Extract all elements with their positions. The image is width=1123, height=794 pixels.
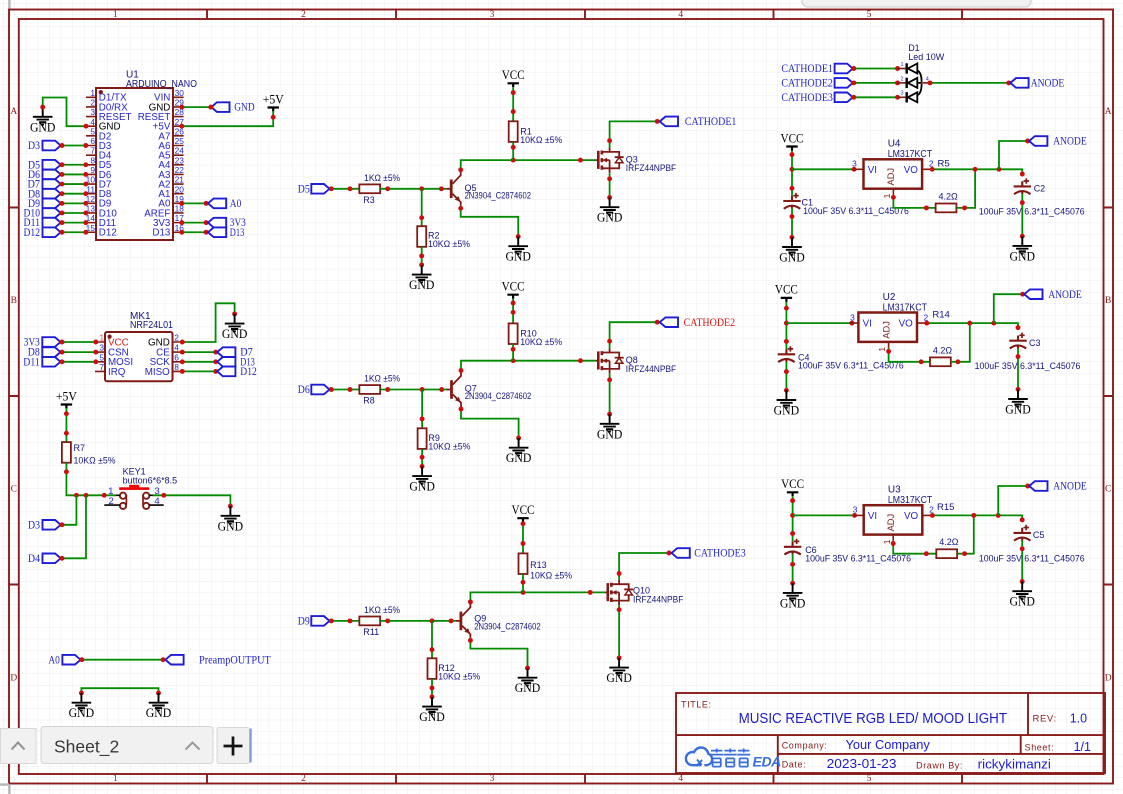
wire ADJ to resistor	[889, 348, 930, 362]
svg-text:Your Company: Your Company	[846, 738, 931, 752]
ground GND at Q8	[597, 414, 623, 441]
svg-text:4: 4	[154, 496, 160, 507]
svg-text:C: C	[1105, 484, 1111, 494]
wire emitter Q9 to ground	[470, 638, 527, 668]
wire D5 to R3	[330, 188, 359, 190]
svg-text:D13: D13	[230, 227, 245, 239]
svg-text:9: 9	[90, 165, 95, 175]
svg-text:7: 7	[90, 146, 95, 156]
svg-text:VI: VI	[868, 511, 877, 522]
port D5	[28, 159, 61, 171]
svg-text:D3: D3	[28, 140, 40, 152]
wire CATHODE3 to D1	[854, 96, 898, 98]
wire VCC to R13	[522, 522, 524, 553]
wire resistor to VO rail	[951, 323, 970, 362]
port D9	[28, 198, 61, 210]
power VCC (U4)	[781, 131, 804, 150]
wire to ANODE (U4)	[999, 141, 1028, 169]
wire VCC rail to U3 VI	[792, 496, 794, 541]
svg-text:C: C	[11, 484, 17, 494]
wire R1 to gate rail	[512, 142, 514, 160]
svg-text:VCC: VCC	[502, 68, 525, 82]
power VCC (R10)	[502, 280, 525, 299]
ground GND at C2	[1010, 236, 1036, 263]
wire MK1 to D12 flag	[182, 370, 215, 372]
svg-text:4.2Ω: 4.2Ω	[939, 537, 959, 547]
wire source Q8 to ground	[609, 374, 611, 414]
wire U1 to 3V3 flag	[182, 222, 206, 224]
svg-text:3: 3	[850, 312, 855, 322]
svg-text:A0: A0	[230, 198, 242, 210]
capacitor C2 100uF output	[979, 178, 1085, 216]
port ANODE (U4)	[1029, 136, 1087, 148]
svg-text:1: 1	[99, 333, 104, 343]
wire D3 to node	[62, 495, 77, 525]
wire D3 to U1 pin6	[62, 145, 87, 147]
resistor R2 10K	[417, 226, 470, 249]
wire D8 to MK1	[61, 351, 96, 353]
wire U1 to D13 flag	[182, 231, 206, 233]
svg-text:GND: GND	[780, 596, 806, 610]
wire R11 to base of Q9	[380, 620, 456, 622]
wire node to R2	[421, 189, 423, 226]
port ANODE (LED)	[1010, 78, 1064, 90]
svg-text:8: 8	[90, 155, 95, 165]
wire collector Q7 to gate rail	[461, 361, 595, 373]
power VCC (R13)	[512, 503, 535, 522]
wire VO rail	[932, 515, 1022, 520]
svg-text:10KΩ ±5%: 10KΩ ±5%	[520, 135, 562, 145]
wire 3V3 to MK1	[61, 341, 96, 343]
wire R3 to base of Q5	[380, 188, 446, 190]
svg-text:3: 3	[853, 505, 858, 515]
ground GND at KEY1	[218, 506, 244, 533]
port D10	[24, 208, 61, 220]
ground GND at U1	[30, 105, 89, 135]
svg-text:IRFZ44NPBF: IRFZ44NPBF	[633, 594, 684, 604]
resistor R11 1K	[359, 605, 400, 637]
port PreampOUTPUT	[165, 654, 270, 666]
IC MK1 NRF24L01	[95, 311, 183, 381]
svg-text:D6: D6	[298, 384, 310, 396]
svg-text:D9: D9	[298, 616, 310, 628]
svg-text:GND: GND	[597, 427, 623, 441]
svg-text:100uF 35V 6.3*11_C45076: 100uF 35V 6.3*11_C45076	[979, 206, 1085, 216]
port GND (U1 pin29)	[179, 102, 254, 114]
regulator U2 LM317KCT	[849, 292, 950, 352]
svg-text:IRQ: IRQ	[108, 367, 126, 378]
svg-text:rickykimanzi: rickykimanzi	[978, 757, 1051, 771]
svg-text:GND: GND	[234, 102, 254, 114]
wire R2 to ground	[421, 247, 423, 265]
port CATHODE1 (driver)	[660, 117, 678, 127]
port ANODE (U2)	[1024, 289, 1081, 301]
svg-text:PreampOUTPUT: PreampOUTPUT	[199, 654, 271, 666]
svg-text:GND: GND	[779, 251, 805, 265]
svg-text:C5: C5	[1033, 530, 1045, 540]
svg-text:1KΩ ±5%: 1KΩ ±5%	[364, 605, 400, 615]
svg-text:2: 2	[901, 76, 904, 82]
svg-text:100uF 35V 6.3*11_C45076: 100uF 35V 6.3*11_C45076	[979, 554, 1085, 564]
svg-text:U3: U3	[888, 485, 901, 496]
port D13 (MK1)	[217, 356, 255, 368]
svg-text:ARDUINO_NANO: ARDUINO_NANO	[126, 79, 197, 90]
svg-text:4.2Ω: 4.2Ω	[933, 345, 953, 355]
svg-text:VO: VO	[899, 319, 914, 330]
svg-text:D12: D12	[99, 228, 117, 239]
wire C6 to ground	[792, 554, 794, 583]
port A0 (preamp)	[48, 654, 80, 666]
svg-text:4: 4	[678, 774, 683, 784]
svg-text:GND: GND	[597, 211, 623, 225]
wire KEY1 pin3 to GND	[153, 495, 231, 506]
svg-text:2: 2	[90, 98, 95, 108]
wire drain Q3 to CATHODE1	[610, 121, 658, 147]
svg-text:3: 3	[901, 91, 904, 97]
svg-text:6: 6	[90, 136, 95, 146]
wire +5V to U1 pin27	[182, 111, 273, 126]
wire R10 to gate rail	[512, 344, 514, 361]
ground GND below R2	[409, 265, 435, 292]
wire VI input	[792, 168, 854, 170]
wire A0 to PreampOUTPUT	[82, 659, 166, 661]
svg-text:VI: VI	[868, 165, 877, 176]
transistor Q9 2N3904	[456, 604, 541, 638]
svg-text:VI: VI	[863, 319, 872, 330]
wire drain Q8 to CATHODE2	[610, 322, 658, 348]
svg-text:1/1: 1/1	[1074, 740, 1091, 754]
wire D12 to U1 pin15	[62, 231, 87, 233]
svg-text:8: 8	[174, 362, 179, 372]
svg-text:1: 1	[113, 774, 118, 784]
wire emitter Q7 to ground	[461, 407, 519, 439]
svg-text:R8: R8	[363, 396, 375, 406]
wire emitter Q5 to ground	[461, 206, 519, 237]
port CATHODE2 (LED)	[781, 78, 852, 90]
svg-text:D: D	[1105, 673, 1112, 683]
svg-text:VCC: VCC	[775, 283, 798, 297]
resistor R12 10K	[428, 658, 481, 681]
port CATHODE3 (driver)	[672, 548, 690, 558]
svg-text:ANODE: ANODE	[1048, 289, 1082, 301]
port D9	[298, 616, 330, 628]
svg-text:1: 1	[877, 347, 887, 352]
wire node to R9	[421, 390, 423, 429]
svg-text:D3: D3	[28, 519, 40, 531]
wire U1 pin29 to GND flag	[182, 106, 211, 108]
svg-text:VCC: VCC	[502, 280, 525, 294]
EasyEDA logo	[686, 748, 781, 770]
svg-text:R7: R7	[74, 443, 86, 453]
regulator U3 LM317KCT	[853, 485, 955, 545]
svg-text:R15: R15	[937, 502, 954, 513]
capacitor C4 100uF input	[778, 346, 904, 370]
ground GND below R12	[419, 697, 445, 724]
wire source Q10 to ground	[618, 605, 620, 658]
svg-text:10KΩ ±5%: 10KΩ ±5%	[428, 239, 470, 249]
svg-text:CATHODE3: CATHODE3	[694, 548, 746, 560]
ground GND pair b	[146, 693, 172, 720]
svg-text:CATHODE2: CATHODE2	[684, 317, 736, 329]
svg-text:NRF24L01: NRF24L01	[130, 320, 173, 331]
svg-text:GND: GND	[1010, 249, 1036, 263]
svg-text:+5V: +5V	[56, 389, 78, 403]
port ANODE (U3)	[1029, 481, 1086, 493]
resistor R9 10K	[418, 428, 471, 451]
wire source Q3 to ground	[609, 173, 611, 197]
wire to ANODE (U3)	[998, 486, 1027, 515]
title block	[676, 693, 1105, 773]
svg-text:Led 10W: Led 10W	[908, 52, 944, 62]
svg-text:2: 2	[301, 774, 306, 784]
transistor Q5 2N3904	[446, 172, 531, 206]
wire MK1 pin2 to GND	[182, 303, 234, 342]
svg-text:VO: VO	[904, 165, 919, 176]
svg-text:3: 3	[852, 159, 857, 169]
svg-text:D13: D13	[152, 228, 171, 239]
svg-text:7: 7	[99, 362, 104, 372]
wire R8 to base of Q7	[380, 389, 446, 391]
port D8 (MK1)	[28, 347, 61, 359]
svg-text:10KΩ ±5%: 10KΩ ±5%	[520, 337, 562, 347]
port D11	[24, 217, 61, 229]
wire MK1 to D7 flag	[182, 351, 215, 353]
port D7	[28, 179, 61, 191]
ground GND at C5	[1009, 582, 1035, 609]
capacitor C1 100uF input	[783, 193, 909, 216]
capacitor C3 100uF output	[975, 333, 1081, 371]
regulator U4 LM317KCT	[852, 139, 949, 199]
svg-text:3: 3	[490, 10, 495, 20]
wire D4 to node	[62, 495, 87, 558]
svg-text:22: 22	[175, 165, 185, 175]
svg-text:3: 3	[490, 774, 495, 784]
svg-text:CATHODE1: CATHODE1	[781, 63, 833, 75]
svg-text:30: 30	[175, 88, 185, 98]
port D4 (key)	[28, 553, 61, 565]
svg-text:CATHODE1: CATHODE1	[685, 116, 737, 128]
svg-text:CATHODE2: CATHODE2	[781, 78, 833, 90]
wire collector Q9 to gate rail	[470, 592, 604, 604]
svg-text:LM317KCT: LM317KCT	[883, 302, 927, 313]
svg-text:1KΩ ±5%: 1KΩ ±5%	[364, 374, 400, 384]
svg-text:3: 3	[90, 107, 95, 117]
wire C1 to ground	[791, 209, 793, 238]
svg-text:5: 5	[867, 774, 872, 784]
svg-text:GND: GND	[515, 681, 541, 695]
svg-text:Date:: Date:	[782, 760, 807, 770]
power VCC (U2)	[775, 283, 798, 302]
wire D5 to U1 pin8	[62, 164, 87, 166]
svg-text:U4: U4	[888, 139, 901, 150]
svg-text:R11: R11	[363, 627, 379, 637]
transistor Q3 IRFZ44NPBF	[595, 148, 676, 174]
wire +5V to R7	[65, 408, 67, 442]
svg-text:5: 5	[99, 352, 104, 362]
wire VI input	[786, 322, 849, 324]
port A0	[208, 198, 241, 210]
wire U1 pin4 GND	[43, 98, 86, 127]
svg-text:GND: GND	[409, 278, 435, 292]
ground GND at C4	[774, 390, 800, 417]
svg-text:GND: GND	[419, 710, 445, 724]
svg-text:D4: D4	[28, 553, 40, 565]
ground GND at C1	[779, 237, 805, 264]
wire MK1 to D13 flag	[182, 361, 215, 363]
svg-text:4: 4	[678, 10, 683, 20]
svg-text:LM317KCT: LM317KCT	[888, 495, 932, 506]
LED D1 Led 10W	[898, 43, 945, 103]
port D3 (key)	[28, 519, 61, 531]
svg-text:VCC: VCC	[512, 503, 535, 517]
svg-text:1.0: 1.0	[1070, 711, 1087, 725]
svg-text:10KΩ ±5%: 10KΩ ±5%	[428, 441, 470, 451]
svg-text:ANODE: ANODE	[1031, 78, 1065, 90]
svg-text:ADJ: ADJ	[886, 514, 896, 532]
ground GND at Q3	[597, 198, 623, 225]
svg-text:21: 21	[175, 175, 185, 185]
svg-text:1: 1	[113, 10, 118, 20]
svg-text:IRFZ44NPBF: IRFZ44NPBF	[626, 364, 677, 374]
svg-text:GND: GND	[505, 250, 531, 264]
svg-text:D11: D11	[23, 356, 40, 368]
transistor Q8 IRFZ44NPBF	[595, 348, 676, 374]
port CATHODE3 (LED)	[781, 92, 852, 104]
svg-text:10KΩ ±5%: 10KΩ ±5%	[74, 456, 116, 466]
svg-text:B: B	[11, 296, 17, 306]
svg-text:GND: GND	[30, 120, 56, 134]
wire CATHODE2 to D1	[854, 82, 898, 84]
wire R12 to ground	[431, 679, 433, 697]
svg-text:VCC: VCC	[781, 477, 804, 491]
wire C3 to ground	[1017, 348, 1019, 389]
power VCC (U3)	[781, 477, 804, 496]
wire drain Q10 to CATHODE3	[619, 553, 669, 580]
ground GND at MK1	[222, 314, 248, 341]
svg-text:20: 20	[175, 184, 185, 194]
ground GND below R9	[409, 466, 435, 493]
svg-text:2023-01-23: 2023-01-23	[827, 757, 897, 771]
wire C5 to ground	[1021, 541, 1023, 582]
svg-text:MISO: MISO	[145, 367, 170, 378]
svg-text:TITLE:: TITLE:	[681, 700, 712, 710]
svg-text:GND: GND	[1009, 595, 1035, 609]
port D6	[298, 384, 330, 396]
svg-text:5: 5	[90, 126, 95, 136]
svg-text:100uF 35V 6.3*11_C45076: 100uF 35V 6.3*11_C45076	[805, 553, 911, 563]
wire D1 anode to ANODE flag	[930, 82, 1009, 84]
svg-text:R5: R5	[938, 158, 950, 169]
svg-text:EDA: EDA	[753, 754, 782, 770]
svg-text:button6*6*8.5: button6*6*8.5	[123, 475, 178, 485]
svg-text:GND: GND	[146, 706, 172, 720]
svg-text:D12: D12	[24, 227, 41, 239]
svg-text:1: 1	[882, 539, 892, 544]
wire R7 to KEY1 node	[66, 463, 116, 496]
svg-text:A: A	[1105, 107, 1112, 117]
wire U1 to A0 flag	[182, 202, 206, 204]
svg-text:Company:: Company:	[782, 741, 828, 751]
svg-text:ADJ: ADJ	[886, 168, 896, 186]
svg-text:+5V: +5V	[263, 92, 285, 106]
wire node to R12	[431, 621, 433, 658]
svg-text:C2: C2	[1034, 184, 1046, 194]
svg-text:GND: GND	[506, 451, 532, 465]
svg-text:CATHODE3: CATHODE3	[781, 92, 833, 104]
svg-text:2: 2	[301, 10, 306, 20]
svg-text:ANODE: ANODE	[1053, 481, 1087, 493]
svg-text:R13: R13	[530, 560, 547, 570]
wire CATHODE1 to D1	[854, 68, 898, 70]
svg-text:2N3904_C2874602: 2N3904_C2874602	[465, 391, 532, 401]
port CATHODE1 (LED)	[781, 63, 852, 75]
svg-text:Sheet:: Sheet:	[1025, 743, 1055, 753]
resistor R7 10K	[62, 442, 116, 466]
ground GND at emitter Q7	[506, 438, 532, 465]
svg-text:2: 2	[174, 333, 179, 343]
svg-text:U2: U2	[883, 292, 896, 303]
svg-text:10KΩ ±5%: 10KΩ ±5%	[530, 570, 572, 580]
svg-text:1KΩ ±5%: 1KΩ ±5%	[364, 173, 400, 183]
svg-text:REV:: REV:	[1033, 713, 1057, 724]
wire D11 to U1 pin14	[62, 222, 87, 224]
port CATHODE2 (driver)	[660, 317, 678, 327]
svg-text:Drawn By:: Drawn By:	[916, 761, 963, 771]
port D7 (MK1)	[217, 347, 253, 359]
capacitor C5 100uF output	[979, 525, 1085, 564]
svg-text:4.2Ω: 4.2Ω	[939, 191, 959, 201]
port D6	[28, 169, 61, 181]
svg-text:GND: GND	[774, 404, 800, 418]
wire VCC to R1	[512, 87, 514, 121]
wire R13 to gate rail	[522, 574, 524, 592]
power VCC (R1)	[502, 68, 525, 87]
svg-text:4: 4	[90, 117, 95, 127]
wire VO rail	[927, 323, 1018, 328]
wire C2 to ground	[1021, 194, 1023, 236]
svg-text:24: 24	[175, 146, 185, 156]
svg-text:100uF 35V 6.3*11_C45076: 100uF 35V 6.3*11_C45076	[975, 361, 1081, 371]
wire D8 to U1 pin11	[62, 193, 87, 195]
port D12 (MK1)	[217, 366, 257, 378]
svg-text:D5: D5	[298, 183, 310, 195]
svg-text:GND: GND	[1005, 403, 1031, 417]
ground GND at C6	[780, 583, 806, 610]
wire VCC rail to U4 VI	[791, 151, 793, 196]
svg-text:VO: VO	[904, 511, 919, 522]
svg-text:2N3904_C2874602: 2N3904_C2874602	[465, 191, 532, 201]
wire D7 to U1 pin10	[62, 183, 87, 185]
svg-text:ANODE: ANODE	[1053, 136, 1087, 148]
svg-text:R3: R3	[363, 195, 375, 205]
svg-text:B: B	[1105, 296, 1111, 306]
port D11 (MK1)	[23, 356, 60, 368]
port 3V3	[208, 217, 246, 229]
svg-text:10KΩ ±5%: 10KΩ ±5%	[438, 671, 480, 681]
op-amp U1 ARDUINO_NANO	[86, 70, 198, 241]
transistor Q10 IRFZ44NPBF	[605, 580, 684, 606]
svg-text:A0: A0	[48, 654, 60, 666]
capacitor C6 100uF input	[784, 539, 911, 564]
wire VO rail	[932, 169, 1022, 174]
power +5V (R7)	[56, 389, 78, 408]
svg-text:R14: R14	[932, 310, 949, 321]
resistor R3 1K	[359, 173, 400, 205]
wire ADJ to resistor	[893, 541, 936, 554]
svg-text:GND: GND	[222, 327, 248, 341]
svg-text:GND: GND	[218, 519, 244, 533]
wire D9 to U1 pin12	[62, 202, 87, 204]
